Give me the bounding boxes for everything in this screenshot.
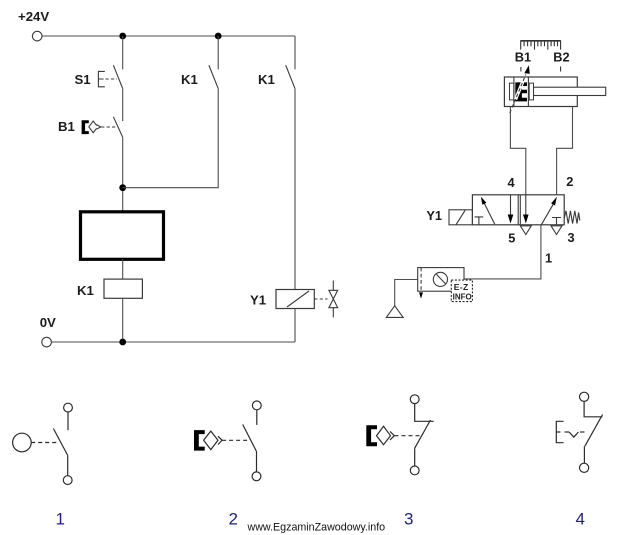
symbol 1 dashed link [31, 442, 58, 444]
label Y1 valve [426, 208, 442, 223]
label 2 [229, 510, 238, 529]
symbol 2 sensor bracket [194, 430, 205, 451]
ruler scale [520, 41, 561, 50]
sensor B1 output triangle [97, 125, 101, 130]
wire branch2 [123, 36, 219, 188]
symbol 1 contact arm [53, 429, 67, 456]
junction dot branch1-branch2 [119, 184, 126, 191]
watermark EZ INFO box [451, 280, 472, 302]
sensor B1 diamond [89, 121, 98, 133]
symbol 1 bottom lead [67, 455, 69, 475]
piston magnet black E [515, 82, 527, 101]
node +24V label [18, 9, 49, 24]
wire branch1 lower [122, 137, 124, 212]
symbol 3 diamond [377, 426, 391, 444]
symbol 1 bottom terminal [63, 476, 72, 485]
symbol 4 dashed link with detent [565, 431, 569, 433]
svg-text:5: 5 [508, 231, 515, 246]
label 3 [404, 510, 413, 529]
label S1 [75, 72, 91, 87]
spring return [564, 211, 580, 224]
solenoid Y1 pneumatic box [449, 210, 472, 225]
Y1 dashed mech link [314, 298, 327, 300]
symbol 3 sensor bracket [366, 425, 377, 446]
symbol 2 contact arm [243, 425, 257, 452]
left chamber flow arrow diagonal [484, 203, 495, 225]
svg-text:1: 1 [56, 510, 65, 529]
sensor B1 bracket [82, 120, 89, 134]
terminal +24V [32, 31, 42, 41]
right chamber blocked port T [552, 218, 561, 225]
valve body [472, 195, 564, 225]
wire branch3 [294, 36, 296, 290]
label K1 coil [77, 283, 94, 298]
svg-text:2: 2 [566, 174, 573, 189]
label B2 sensor [553, 50, 569, 65]
piston rod [534, 87, 606, 95]
contact K1 branch2 arm [209, 65, 218, 88]
label 0V [40, 315, 56, 330]
wire cylinder left port [510, 107, 525, 196]
S1 dashed link [106, 78, 118, 80]
solenoid Y1 pneumatic diagonal [456, 210, 465, 225]
symbol 3 output triangle [390, 431, 394, 440]
svg-text:INFO: INFO [453, 292, 472, 301]
piston right seal [529, 83, 533, 100]
symbol 1 top lead [67, 412, 69, 430]
wire port1 [464, 225, 541, 279]
wire branch1 between S1 and B1 [122, 89, 124, 121]
svg-text:K1: K1 [77, 283, 94, 298]
B1 actuation dashed arrow [516, 81, 524, 99]
cylinder body [504, 77, 577, 107]
watermark text [247, 522, 386, 534]
solenoid Y1 diagonal [287, 291, 309, 307]
label K1 contact2 [258, 72, 275, 87]
S1 pushbutton actuator [98, 71, 104, 86]
wire coil to bottom rail [122, 298, 124, 342]
svg-text:4: 4 [576, 510, 585, 529]
left chamber blocked port T [475, 217, 484, 225]
exhaust triangle port5 [520, 226, 531, 235]
terminal 0V [42, 337, 52, 347]
symbol 3 top lead and bar [415, 404, 434, 422]
service unit gauge circle [433, 272, 447, 286]
wire relay box to coil [122, 259, 124, 279]
label B1 sensor [515, 50, 531, 65]
svg-text:B2: B2 [553, 50, 569, 65]
svg-text:1: 1 [545, 250, 552, 265]
wire bottom rail [52, 341, 296, 343]
relay box [81, 212, 164, 259]
symbol 2 bottom lead [256, 452, 258, 472]
service unit drain arrow [419, 292, 423, 298]
label 1 [56, 510, 65, 529]
symbol 2 top lead [256, 410, 258, 425]
svg-text:2: 2 [229, 510, 238, 529]
symbol 1 actuator circle [13, 433, 32, 452]
svg-text:K1: K1 [258, 72, 275, 87]
piston left seal [510, 83, 514, 100]
wire top rail [42, 35, 295, 37]
service unit dashed divider [420, 268, 422, 292]
symbol 4 top lead and bar [584, 401, 602, 416]
svg-text:Y1: Y1 [426, 208, 442, 223]
valve indicator hourglass [329, 281, 338, 318]
svg-text:+24V: +24V [18, 9, 49, 24]
right chamber pass line with down arrow [525, 195, 527, 215]
coil K1 [104, 279, 142, 298]
contact B1 arm [113, 117, 122, 138]
cylinder piston line [527, 77, 529, 107]
wire Y1 to bottom rail [294, 309, 296, 343]
symbol 2 diamond [204, 431, 218, 450]
label port 2 [566, 174, 573, 189]
symbol 3 dashed link [395, 435, 421, 437]
wire cylinder right port [557, 107, 573, 196]
contact K1 branch3 arm [286, 65, 295, 88]
symbol 2 top terminal [252, 401, 261, 410]
svg-text:Y1: Y1 [250, 293, 266, 308]
service unit box [418, 268, 464, 292]
valve chamber divider [518, 195, 520, 225]
label B1 [58, 119, 75, 134]
label port 3 [568, 230, 575, 245]
label port 5 [508, 231, 515, 246]
symbol 4 bottom terminal [580, 463, 589, 472]
symbol 2 output triangle [218, 436, 222, 444]
tick under B1 [520, 67, 522, 72]
label K1 contact1 [181, 72, 198, 87]
cylinder left cap line [513, 77, 515, 107]
B1 dashed link [101, 126, 116, 128]
symbol 1 top terminal [64, 403, 73, 412]
left chamber down-flow line [510, 195, 512, 215]
label 4 [576, 510, 585, 529]
svg-text:E-Z: E-Z [454, 282, 469, 292]
air source triangle [386, 306, 403, 318]
svg-text:www.EgzaminZawodowy.info: www.EgzaminZawodowy.info [247, 522, 386, 534]
junction dot rail-branch1 [119, 33, 126, 40]
label port 1 [545, 250, 552, 265]
svg-text:0V: 0V [40, 315, 56, 330]
symbol 3 bottom terminal [410, 466, 419, 475]
right chamber flow arrow diagonal [541, 204, 553, 225]
symbol 4 NC contact arm [585, 415, 603, 447]
label Y1 coil [250, 293, 266, 308]
symbol 2 dashed link [222, 439, 249, 441]
wire air supply [395, 280, 418, 306]
symbol 3 bottom lead [414, 448, 416, 466]
svg-text:3: 3 [568, 230, 575, 245]
svg-text:K1: K1 [181, 72, 198, 87]
junction dot rail-branch2 [215, 33, 222, 40]
svg-text:S1: S1 [75, 72, 91, 87]
switch S1 contact arm [113, 65, 122, 88]
symbol 4 top terminal [580, 392, 589, 401]
junction dot bottom rail [119, 339, 126, 346]
symbol 4 pushbutton actuator [556, 421, 563, 442]
svg-text:4: 4 [508, 175, 516, 190]
symbol 4 bottom lead [583, 446, 585, 463]
solenoid Y1 box [276, 290, 314, 309]
symbol 2 bottom terminal [252, 472, 261, 481]
tick under B2 [560, 67, 562, 72]
svg-text:B1: B1 [515, 50, 531, 65]
label port 4 [508, 175, 516, 190]
symbol 3 NC contact arm [415, 420, 431, 448]
wire branch1 upper [122, 36, 124, 69]
svg-text:3: 3 [404, 510, 413, 529]
svg-text:B1: B1 [58, 119, 75, 134]
symbol 3 top terminal [410, 395, 419, 404]
exhaust triangle port3 [551, 226, 562, 235]
